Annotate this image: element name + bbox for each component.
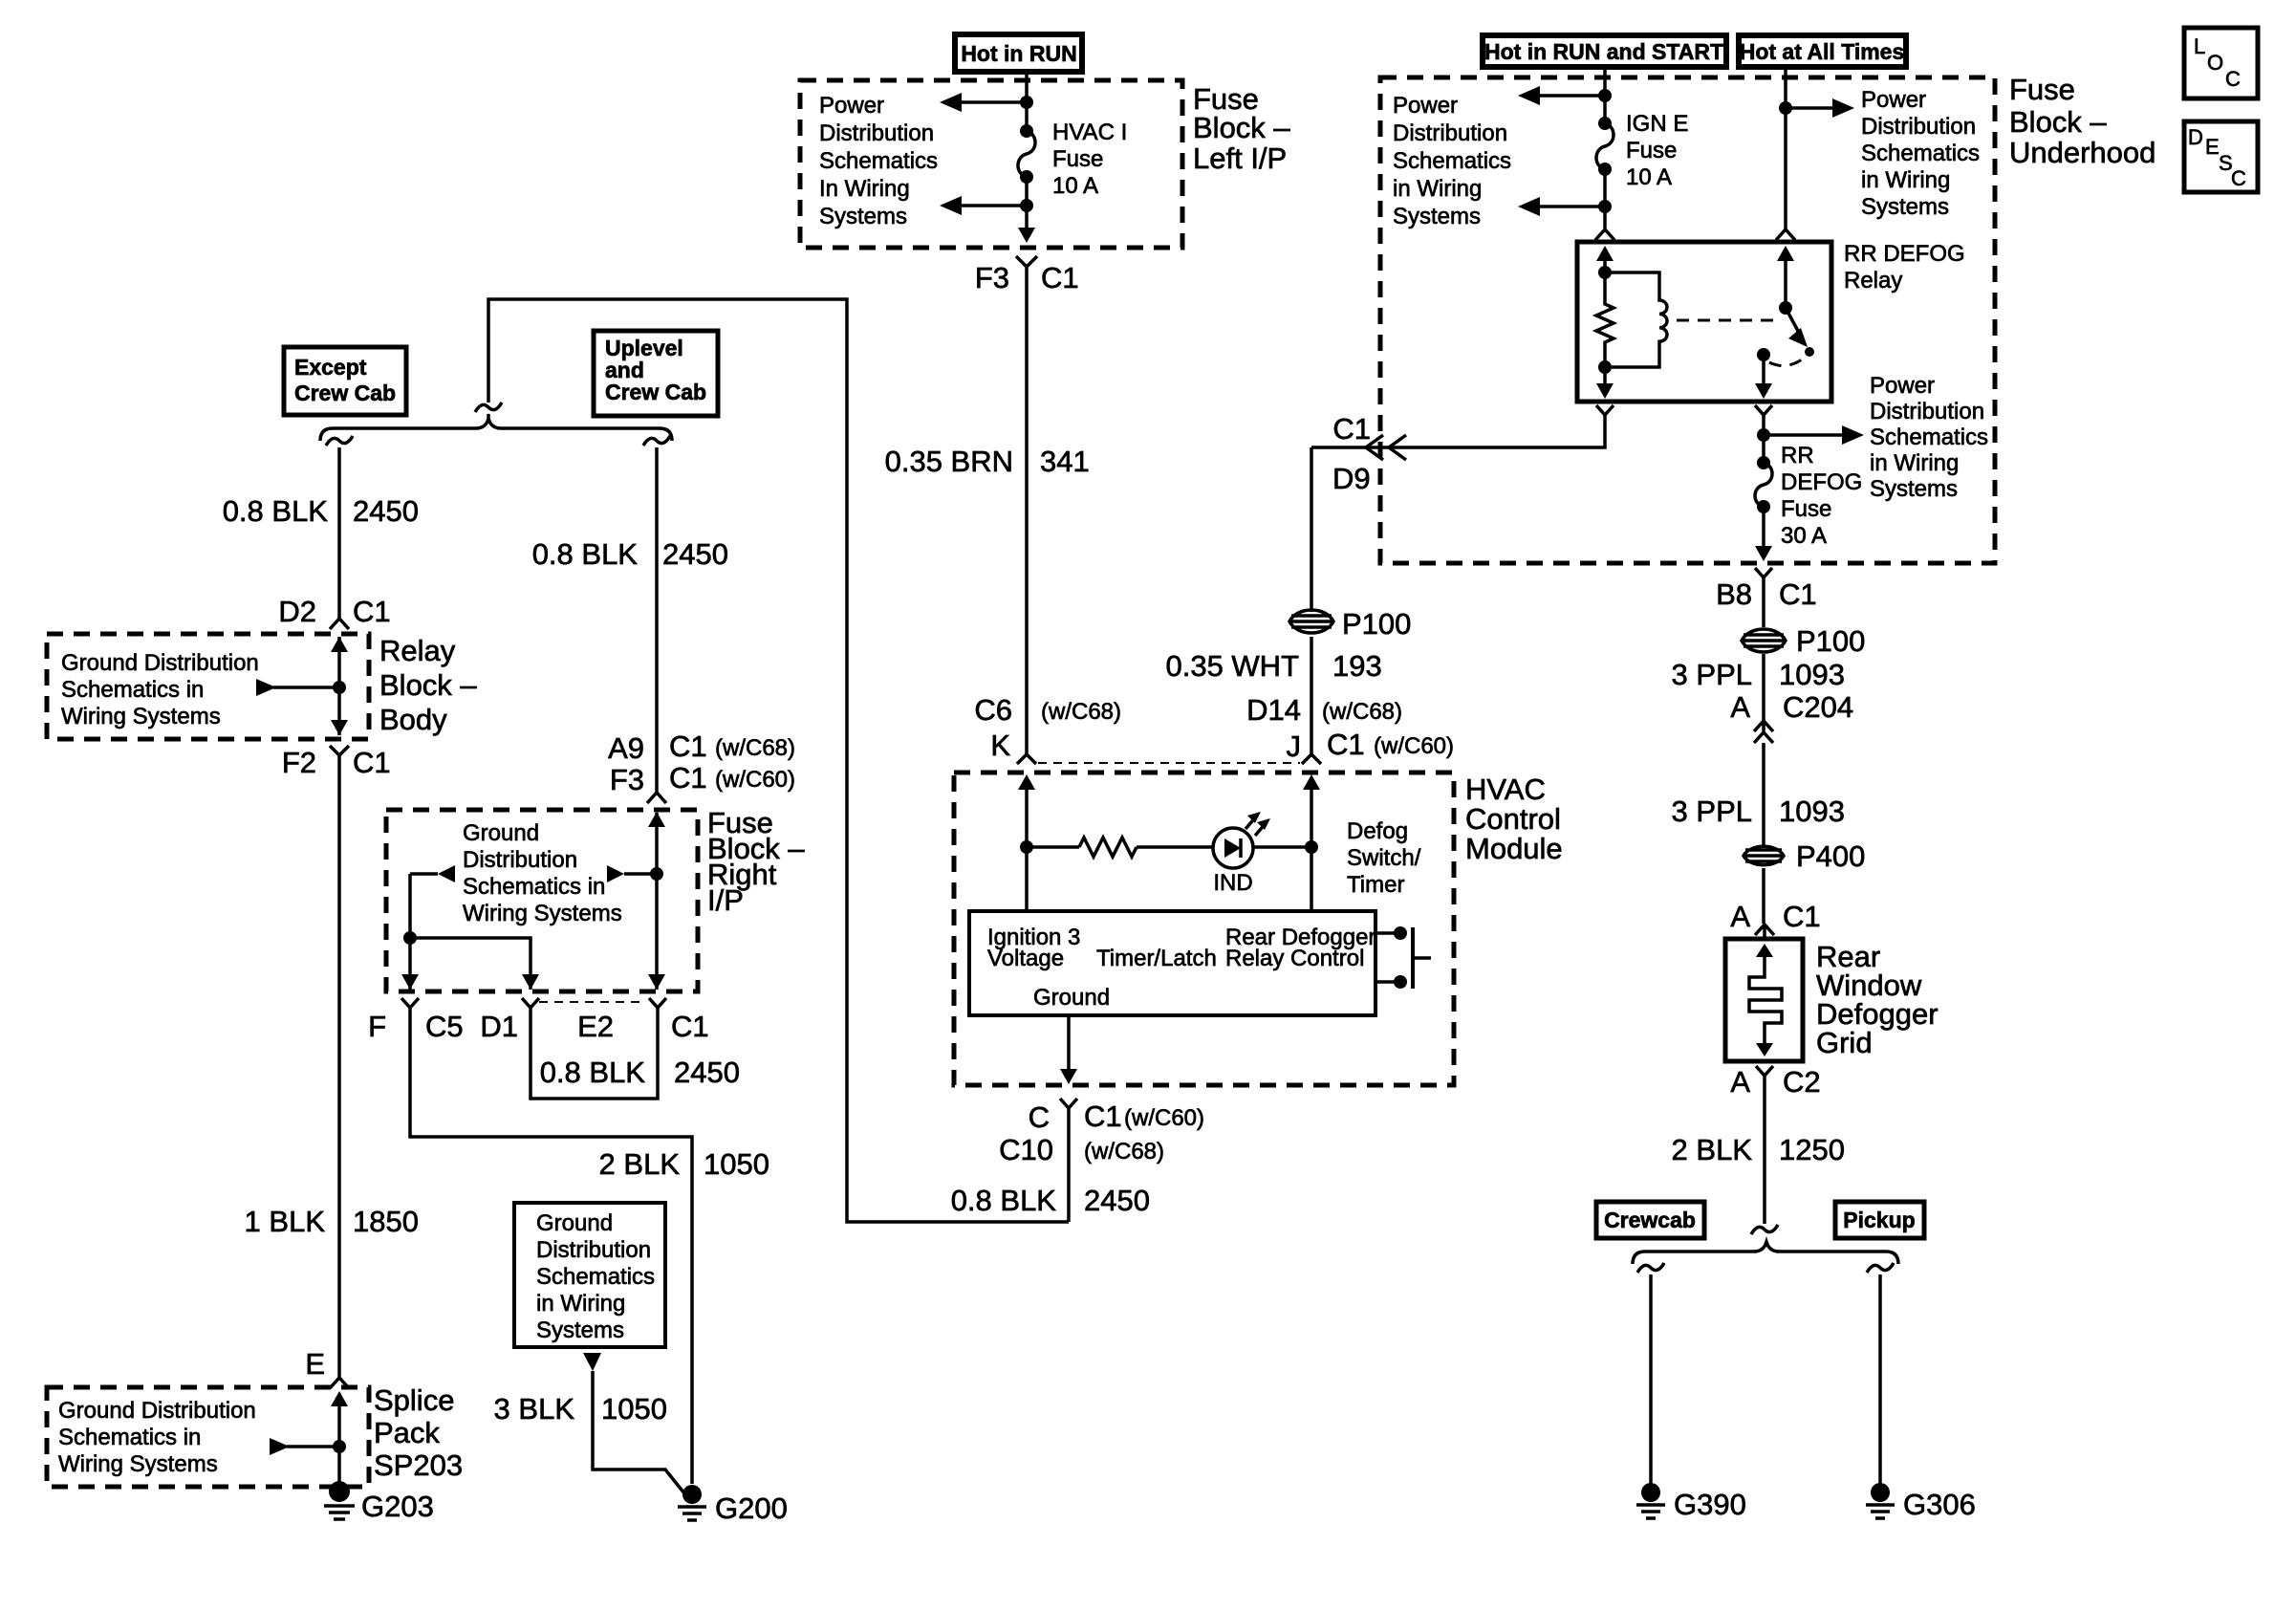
svg-text:3 PPL: 3 PPL bbox=[1672, 658, 1752, 691]
svg-text:Timer: Timer bbox=[1347, 872, 1404, 898]
svg-text:Left I/P: Left I/P bbox=[1193, 142, 1287, 175]
svg-text:Relay Control: Relay Control bbox=[1225, 946, 1364, 971]
arrow from schematics text to wire bbox=[273, 686, 339, 689]
left arrow and ground path inside right I/P bbox=[410, 872, 438, 876]
timer/latch inner box bbox=[969, 911, 1375, 1015]
svg-text:30 A: 30 A bbox=[1781, 523, 1827, 549]
fuse block right I/P dashed box bbox=[386, 810, 698, 991]
svg-text:Relay: Relay bbox=[1844, 268, 1902, 294]
svg-text:C10: C10 bbox=[999, 1133, 1053, 1166]
svg-text:P100: P100 bbox=[1342, 607, 1411, 641]
connector F C5 bbox=[401, 998, 419, 1021]
connector B8 C1 bbox=[1755, 568, 1772, 591]
connector A C2 bbox=[1756, 1066, 1773, 1090]
svg-text:Schematics in: Schematics in bbox=[58, 1425, 201, 1450]
fuse block left I/P dashed box bbox=[800, 80, 1182, 248]
wire ground return trace from HVAC C10 to branch brace bbox=[488, 299, 1069, 1222]
svg-text:Distribution: Distribution bbox=[463, 847, 577, 873]
svg-text:Control: Control bbox=[1465, 802, 1561, 836]
wire B8 to P100 bbox=[1762, 591, 1765, 627]
svg-text:Systems: Systems bbox=[1870, 476, 1958, 502]
connector below relay output bbox=[1755, 405, 1772, 426]
node junction dot bbox=[333, 1440, 346, 1453]
connector C1 D9 chevrons bbox=[1366, 435, 1406, 460]
thin dashed connector line C1 bbox=[1038, 762, 1300, 764]
DESC reference box bbox=[2184, 121, 2258, 192]
svg-text:in Wiring: in Wiring bbox=[1393, 176, 1482, 202]
svg-text:F2: F2 bbox=[282, 746, 316, 779]
resistor (relay suppression) bbox=[1596, 272, 1614, 367]
wire 2 BLK 1250 bbox=[1763, 1090, 1766, 1224]
svg-text:(w/C68): (w/C68) bbox=[1322, 699, 1402, 725]
wire through right I/P block bbox=[655, 813, 659, 990]
svg-text:C1: C1 bbox=[1783, 900, 1821, 933]
svg-text:Defog: Defog bbox=[1347, 818, 1408, 844]
svg-text:G390: G390 bbox=[1674, 1488, 1746, 1521]
LOC reference box bbox=[2184, 28, 2258, 98]
fuse block underhood dashed box bbox=[1380, 77, 1995, 563]
arrow below solid box bbox=[583, 1353, 601, 1371]
svg-text:0.8 BLK: 0.8 BLK bbox=[540, 1056, 646, 1089]
svg-text:(w/C68): (w/C68) bbox=[1041, 699, 1121, 725]
arrow exiting fuse block bottom bbox=[1018, 228, 1035, 243]
relay RR DEFOG box bbox=[1577, 242, 1831, 402]
svg-text:C1: C1 bbox=[669, 729, 707, 763]
svg-text:Fuse: Fuse bbox=[1052, 146, 1103, 172]
svg-text:(w/C68): (w/C68) bbox=[1084, 1139, 1164, 1165]
connector D2 C1 bbox=[330, 619, 349, 629]
connector below relay coil bbox=[1596, 405, 1614, 426]
svg-text:3 PPL: 3 PPL bbox=[1672, 795, 1752, 828]
svg-text:2450: 2450 bbox=[662, 537, 728, 571]
svg-text:Switch/: Switch/ bbox=[1347, 845, 1421, 871]
wire 3 PPL 1093 (lower) bbox=[1762, 743, 1765, 846]
svg-text:Fuse: Fuse bbox=[2009, 73, 2075, 106]
wire below IGN E fuse bbox=[1603, 169, 1607, 229]
svg-text:C1: C1 bbox=[1779, 577, 1817, 611]
wire through relay block with arrows bbox=[337, 637, 341, 735]
dashed actuation link bbox=[1677, 319, 1773, 322]
break squiggle pickup branch bbox=[1867, 1263, 1894, 1273]
wire resistor to LED bbox=[1137, 845, 1213, 849]
node junction dot bbox=[333, 681, 346, 694]
ground G203 bbox=[324, 1481, 434, 1523]
svg-text:Block –: Block – bbox=[2009, 105, 2107, 139]
svg-text:C: C bbox=[2225, 67, 2241, 91]
svg-text:C6: C6 bbox=[974, 693, 1012, 727]
svg-text:Systems: Systems bbox=[1393, 204, 1481, 229]
svg-text:SP203: SP203 bbox=[374, 1448, 463, 1482]
relay switch arm with arrow bbox=[1786, 308, 1799, 333]
wire IGN E from Hot in RUN and START bbox=[1603, 67, 1607, 123]
relay coil winding bbox=[1605, 272, 1667, 367]
svg-text:(w/C60): (w/C60) bbox=[715, 767, 795, 793]
wire 3 BLK 1050 bbox=[593, 1371, 692, 1503]
wire arrow to power distribution schematics (left upper) bbox=[1538, 94, 1605, 98]
svg-text:0.8 BLK: 0.8 BLK bbox=[532, 537, 639, 571]
brace splitting crewcab/pickup bbox=[1633, 1242, 1898, 1264]
svg-text:Module: Module bbox=[1465, 832, 1563, 865]
svg-text:Power: Power bbox=[1870, 373, 1935, 399]
svg-text:Hot in RUN and START: Hot in RUN and START bbox=[1484, 39, 1723, 64]
svg-text:DEFOG: DEFOG bbox=[1781, 469, 1862, 495]
svg-text:Pickup: Pickup bbox=[1843, 1208, 1915, 1232]
rear window defogger grid box bbox=[1725, 939, 1803, 1061]
node junction dot bbox=[650, 867, 663, 881]
wire below fuse bbox=[1025, 177, 1029, 233]
wire 0.8 BLK 2450 (uplevel) bbox=[655, 447, 659, 793]
svg-text:Distribution: Distribution bbox=[536, 1237, 651, 1263]
svg-text:E2: E2 bbox=[577, 1010, 614, 1043]
svg-text:0.35 WHT: 0.35 WHT bbox=[1165, 649, 1299, 683]
svg-text:C1: C1 bbox=[1041, 261, 1079, 294]
svg-text:HVAC: HVAC bbox=[1465, 773, 1546, 806]
wire arrow to power distribution schematics (lower) bbox=[960, 204, 1027, 207]
svg-text:Fuse: Fuse bbox=[1781, 496, 1831, 522]
wire 2 BLK 1050 from F pin bbox=[410, 1021, 692, 1484]
ground G306 bbox=[1866, 1483, 1976, 1521]
wire 1 BLK 1850 bbox=[337, 769, 341, 1378]
svg-text:Hot in RUN: Hot in RUN bbox=[961, 41, 1076, 66]
relay contact dot (output) bbox=[1757, 348, 1770, 361]
svg-text:G200: G200 bbox=[715, 1491, 788, 1525]
node junction dot bbox=[1020, 96, 1033, 109]
svg-text:2450: 2450 bbox=[674, 1056, 740, 1089]
svg-text:P400: P400 bbox=[1796, 839, 1865, 873]
svg-text:0.8 BLK: 0.8 BLK bbox=[951, 1184, 1057, 1217]
pin K entry arrow bbox=[1025, 784, 1029, 847]
svg-text:Schematics in: Schematics in bbox=[463, 874, 605, 900]
wire arrow to power distribution schematics (output) bbox=[1764, 433, 1842, 437]
svg-text:C1: C1 bbox=[1084, 1099, 1122, 1133]
wire 0.35 WHT 193 bbox=[1310, 637, 1313, 754]
svg-text:C1: C1 bbox=[1332, 412, 1371, 446]
svg-text:C5: C5 bbox=[425, 1010, 464, 1043]
svg-text:Systems: Systems bbox=[536, 1317, 624, 1343]
svg-text:C1: C1 bbox=[353, 746, 391, 779]
fuse HVAC I 10A symbol bbox=[1020, 124, 1033, 138]
ground G390 bbox=[1636, 1483, 1746, 1521]
svg-text:Ground Distribution: Ground Distribution bbox=[61, 650, 259, 676]
svg-text:10 A: 10 A bbox=[1626, 164, 1672, 190]
fuse IGN E 10A symbol bbox=[1598, 117, 1612, 130]
wire 0.35 BRN 341 bbox=[1025, 282, 1029, 754]
svg-text:Ground: Ground bbox=[1033, 985, 1110, 1011]
svg-text:(w/C68): (w/C68) bbox=[715, 735, 795, 761]
svg-text:Body: Body bbox=[379, 703, 447, 736]
wire crewcab ground branch bbox=[1649, 1274, 1653, 1484]
svg-text:Fuse: Fuse bbox=[1626, 138, 1677, 163]
svg-text:F3: F3 bbox=[610, 763, 644, 796]
grommet P400 bbox=[1744, 839, 1865, 873]
svg-text:D14: D14 bbox=[1246, 693, 1301, 727]
svg-text:D1: D1 bbox=[480, 1010, 518, 1043]
svg-text:O: O bbox=[2207, 51, 2223, 75]
svg-text:Wiring Systems: Wiring Systems bbox=[61, 704, 221, 729]
svg-text:193: 193 bbox=[1332, 649, 1382, 683]
svg-text:Splice: Splice bbox=[374, 1383, 454, 1417]
resistor (IND dropping) bbox=[1079, 838, 1137, 857]
grommet P100 (right) bbox=[1742, 624, 1865, 658]
svg-text:3 BLK: 3 BLK bbox=[494, 1392, 575, 1426]
svg-text:E: E bbox=[2205, 135, 2220, 159]
ground distribution schematics solid box bbox=[514, 1203, 665, 1347]
svg-text:1050: 1050 bbox=[704, 1147, 769, 1181]
svg-text:Schematics in: Schematics in bbox=[61, 677, 204, 703]
header label Hot in RUN and START bbox=[1483, 35, 1726, 67]
relay output arrow down bbox=[1762, 355, 1765, 385]
break squiggle above brace bbox=[1751, 1225, 1778, 1234]
svg-text:C204: C204 bbox=[1783, 690, 1853, 724]
svg-text:Schematics: Schematics bbox=[1861, 141, 1980, 166]
relay coil pin arrow down bbox=[1603, 367, 1607, 385]
svg-text:RR DEFOG: RR DEFOG bbox=[1844, 241, 1965, 267]
svg-text:F3: F3 bbox=[975, 261, 1009, 294]
svg-text:1050: 1050 bbox=[601, 1392, 667, 1426]
svg-text:Systems: Systems bbox=[819, 204, 907, 229]
fuse RR DEFOG 30A symbol bbox=[1757, 456, 1770, 469]
wire J junction into timer box bbox=[1310, 847, 1313, 911]
node junction dot bbox=[1598, 200, 1612, 213]
svg-text:Wiring Systems: Wiring Systems bbox=[463, 901, 622, 926]
svg-text:1250: 1250 bbox=[1779, 1133, 1845, 1166]
arrow from schematics text to wire bbox=[287, 1445, 339, 1448]
svg-text:Timer/Latch: Timer/Latch bbox=[1096, 946, 1217, 971]
svg-text:(w/C60): (w/C60) bbox=[1374, 733, 1454, 759]
svg-text:RR: RR bbox=[1781, 443, 1814, 468]
connector C C10 below module bbox=[1060, 1099, 1077, 1122]
svg-text:1093: 1093 bbox=[1779, 658, 1845, 691]
header label Pickup bbox=[1835, 1202, 1924, 1238]
wire arrow to power distribution schematics (upper) bbox=[960, 100, 1027, 104]
svg-text:C1: C1 bbox=[669, 761, 707, 795]
svg-text:Distribution: Distribution bbox=[819, 120, 934, 146]
node ignition voltage junction bbox=[1020, 840, 1033, 854]
wire to defogger grid bbox=[1762, 868, 1765, 924]
header label Uplevel and Crew Cab bbox=[594, 331, 718, 416]
svg-text:Schematics: Schematics bbox=[1870, 425, 1988, 450]
svg-text:IND: IND bbox=[1213, 870, 1252, 896]
svg-text:Crew Cab: Crew Cab bbox=[605, 380, 706, 404]
svg-text:Block –: Block – bbox=[379, 668, 477, 702]
connector into fuse block right I/P bbox=[647, 793, 666, 803]
svg-text:Ground: Ground bbox=[463, 820, 539, 846]
svg-text:Distribution: Distribution bbox=[1870, 399, 1984, 425]
relay switch pivot bbox=[1779, 301, 1792, 315]
wire 0.8 BLK 2450 (HVAC ground) bbox=[1067, 1122, 1071, 1222]
svg-text:B8: B8 bbox=[1716, 577, 1752, 611]
HVAC control module dashed box bbox=[954, 773, 1454, 1085]
svg-text:Ground Distribution: Ground Distribution bbox=[58, 1398, 256, 1424]
header label Hot at All Times bbox=[1739, 35, 1906, 67]
header label Crewcab bbox=[1596, 1202, 1704, 1238]
svg-text:Relay: Relay bbox=[379, 634, 456, 667]
svg-text:Distribution: Distribution bbox=[1393, 120, 1507, 146]
pin J entry arrow bbox=[1310, 784, 1313, 847]
wire 0.8 BLK 2450 (except crew cab) bbox=[337, 447, 341, 619]
svg-text:0.35 BRN: 0.35 BRN bbox=[885, 445, 1013, 478]
svg-text:Pack: Pack bbox=[374, 1416, 440, 1449]
connector at relay coil pin bbox=[1595, 229, 1614, 240]
svg-text:In Wiring: In Wiring bbox=[819, 176, 910, 202]
connector D14 J C1 at HVAC pin J bbox=[1302, 754, 1321, 764]
svg-text:Power: Power bbox=[1393, 93, 1458, 119]
svg-text:2450: 2450 bbox=[1084, 1184, 1150, 1217]
svg-text:in Wiring: in Wiring bbox=[1870, 450, 1959, 476]
svg-text:1850: 1850 bbox=[353, 1205, 419, 1238]
wire to resistor bbox=[1027, 845, 1079, 849]
svg-text:A: A bbox=[1730, 900, 1750, 933]
wire branch to D1 pin bbox=[410, 938, 531, 990]
break squiggle crewcab branch bbox=[1637, 1263, 1664, 1273]
svg-text:1 BLK: 1 BLK bbox=[245, 1205, 326, 1238]
relay contact dot (arm side) bbox=[1805, 347, 1814, 357]
pushbutton switch contacts bbox=[1375, 926, 1431, 989]
svg-text:J: J bbox=[1287, 729, 1302, 763]
node defog switch junction bbox=[1305, 840, 1318, 854]
svg-text:D9: D9 bbox=[1332, 462, 1371, 495]
svg-text:C1: C1 bbox=[353, 595, 391, 628]
svg-text:2450: 2450 bbox=[353, 494, 419, 528]
wire Hot at All Times down to relay bbox=[1784, 67, 1787, 229]
svg-text:Underhood: Underhood bbox=[2009, 136, 2155, 169]
svg-text:Hot at All Times: Hot at All Times bbox=[1740, 39, 1905, 64]
break squiggle above brace peak bbox=[475, 403, 502, 412]
svg-text:C: C bbox=[1029, 1100, 1050, 1134]
svg-text:Grid: Grid bbox=[1816, 1026, 1873, 1059]
node junction dot bbox=[1020, 199, 1033, 212]
svg-text:I/P: I/P bbox=[707, 883, 744, 917]
wire K junction into timer box bbox=[1025, 847, 1029, 911]
svg-text:IGN E: IGN E bbox=[1626, 111, 1688, 137]
connector F2 C1 bbox=[330, 746, 349, 769]
svg-text:Except: Except bbox=[294, 355, 367, 380]
wire arrow to power distribution schematics (right) bbox=[1786, 106, 1832, 110]
dashed travel arc bbox=[1769, 358, 1805, 366]
svg-text:Schematics: Schematics bbox=[1393, 148, 1511, 174]
header label Hot in RUN bbox=[955, 34, 1082, 72]
wire pickup ground branch bbox=[1878, 1274, 1882, 1484]
svg-text:A: A bbox=[1730, 1065, 1750, 1099]
svg-text:D: D bbox=[2188, 125, 2203, 149]
relay coil pin arrow up bbox=[1603, 256, 1607, 272]
svg-text:HVAC I: HVAC I bbox=[1052, 120, 1127, 145]
arrow from schematics text to wire bbox=[624, 872, 657, 876]
svg-text:Crewcab: Crewcab bbox=[1604, 1208, 1696, 1232]
brace splitting except/uplevel branches bbox=[320, 419, 672, 441]
svg-text:G306: G306 bbox=[1903, 1488, 1976, 1521]
break squiggle uplevel branch bbox=[643, 436, 670, 446]
connector at relay switch pin bbox=[1776, 229, 1795, 240]
svg-text:C1: C1 bbox=[1327, 728, 1365, 761]
wire LED to J leg bbox=[1253, 845, 1311, 849]
connector F3 C1 bbox=[1016, 256, 1037, 282]
svg-text:Voltage: Voltage bbox=[987, 946, 1064, 971]
svg-text:F: F bbox=[368, 1010, 386, 1043]
svg-text:Crew Cab: Crew Cab bbox=[294, 381, 396, 405]
svg-text:Power: Power bbox=[1861, 87, 1926, 113]
wire through splice pack bbox=[337, 1394, 341, 1483]
svg-text:D2: D2 bbox=[278, 595, 316, 628]
relay block body dashed box bbox=[47, 634, 369, 739]
splice pack dashed box bbox=[47, 1387, 369, 1487]
svg-text:C1: C1 bbox=[671, 1010, 709, 1043]
svg-text:Wiring Systems: Wiring Systems bbox=[58, 1451, 218, 1477]
ground G200 bbox=[678, 1485, 788, 1525]
connector E2 C1 bbox=[649, 998, 666, 1021]
connector D1 bbox=[522, 998, 539, 1021]
svg-text:1093: 1093 bbox=[1779, 795, 1845, 828]
svg-text:Ground: Ground bbox=[536, 1210, 613, 1236]
svg-text:Distribution: Distribution bbox=[1861, 114, 1976, 140]
grommet P100 (middle) bbox=[1289, 607, 1411, 641]
wire from C1/D9 corner down to P100 (middle) bbox=[1310, 447, 1313, 612]
wire from relay coil to HVAC module (C1/D9) bbox=[1311, 426, 1605, 447]
LED indicator IND bbox=[1213, 812, 1270, 896]
svg-text:C: C bbox=[2231, 166, 2246, 190]
svg-text:2 BLK: 2 BLK bbox=[599, 1147, 681, 1181]
svg-text:341: 341 bbox=[1040, 445, 1090, 478]
svg-text:P100: P100 bbox=[1796, 624, 1865, 658]
connector at splice pack bbox=[330, 1378, 349, 1388]
ground pin wire bbox=[1067, 1015, 1071, 1073]
header label Except Crew Cab bbox=[284, 347, 406, 415]
svg-text:Schematics: Schematics bbox=[536, 1264, 655, 1290]
svg-text:A: A bbox=[1730, 690, 1750, 724]
svg-text:Block –: Block – bbox=[1193, 111, 1290, 144]
break squiggle except branch bbox=[326, 436, 353, 446]
svg-text:in Wiring: in Wiring bbox=[1861, 167, 1950, 193]
node junction dot bbox=[1779, 101, 1792, 115]
svg-text:in Wiring: in Wiring bbox=[536, 1291, 625, 1317]
svg-text:2 BLK: 2 BLK bbox=[1672, 1133, 1753, 1166]
wire to underhood box bottom bbox=[1762, 507, 1765, 548]
wire loop 0.8 BLK 2450 D1 to E2 bbox=[531, 1021, 658, 1099]
connector C6 K (w/C68) at HVAC pin K bbox=[1017, 754, 1036, 764]
node junction dot bbox=[403, 931, 417, 945]
svg-text:K: K bbox=[990, 729, 1010, 762]
svg-text:0.8 BLK: 0.8 BLK bbox=[223, 494, 329, 528]
svg-text:Systems: Systems bbox=[1861, 194, 1949, 220]
node coil top junction bbox=[1598, 266, 1612, 279]
wire from Hot in RUN into fuse block bbox=[1025, 72, 1029, 131]
defogger grid element bbox=[1749, 944, 1782, 1056]
svg-text:G203: G203 bbox=[361, 1490, 434, 1523]
svg-text:A9: A9 bbox=[608, 731, 644, 765]
svg-text:C2: C2 bbox=[1783, 1065, 1821, 1099]
node junction dot bbox=[1598, 89, 1612, 102]
wire down from arrow corner bbox=[408, 874, 412, 990]
wire arrow to power distribution schematics (left lower) bbox=[1538, 205, 1605, 208]
svg-text:(w/C60): (w/C60) bbox=[1124, 1105, 1204, 1131]
svg-text:E: E bbox=[305, 1347, 325, 1381]
relay switch pin arrow up bbox=[1784, 256, 1787, 308]
svg-text:L: L bbox=[2194, 34, 2205, 58]
thin dashed connector line D1-E2 bbox=[539, 1001, 645, 1003]
node coil bottom junction bbox=[1598, 360, 1612, 374]
node relay output junction bbox=[1762, 426, 1765, 463]
svg-text:10 A: 10 A bbox=[1052, 173, 1098, 199]
svg-text:Power: Power bbox=[819, 93, 884, 119]
wire 3 PPL 1093 (upper) bbox=[1762, 654, 1765, 722]
svg-text:Schematics: Schematics bbox=[819, 148, 938, 174]
